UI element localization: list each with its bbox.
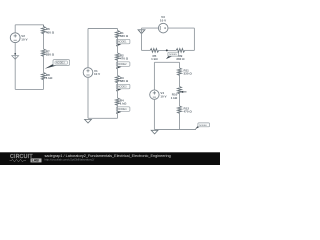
svg-text:NODE2: NODE2 (118, 63, 127, 66)
svg-text:sadegrap1 / Laboratory2_Fundam: sadegrap1 / Laboratory2_Fundamentals_Ele… (45, 154, 171, 158)
callout node flag circuit1 (45, 60, 70, 69)
label V1 10 V (94, 69, 100, 76)
wire left upper circuit2 (87, 29, 89, 68)
wire top rail circuit2 (88, 28, 118, 30)
label V2 10 V (21, 34, 27, 41)
wire bottom branch left circuit3 (142, 49, 151, 51)
svg-text:1 kΩ: 1 kΩ (151, 57, 158, 61)
callout node flag 2a (116, 39, 130, 46)
svg-text:1 kΩ: 1 kΩ (120, 102, 127, 106)
wiper arrow R10 (180, 91, 186, 93)
svg-text:470 Ω: 470 Ω (120, 57, 129, 61)
wire left upper circuit1 (14, 25, 16, 33)
svg-text:LAB: LAB (32, 159, 40, 163)
label R3 680 (120, 76, 129, 83)
wire chain2 seg1 (117, 37, 119, 53)
svg-text:330 Ω: 330 Ω (184, 72, 193, 76)
voltage source V1 (83, 68, 93, 78)
label R6 400 (46, 27, 55, 34)
wire chain4 top stub (179, 62, 181, 68)
ground GND2 (85, 119, 92, 123)
svg-text:http://circuitlab.com/c/2p63k8: http://circuitlab.com/c/2p63k8/laborator… (45, 158, 95, 162)
resistor R2 (116, 53, 120, 60)
svg-text:CIRCUIT: CIRCUIT (10, 154, 33, 160)
label V4 10 V (160, 91, 166, 98)
svg-text:10 V: 10 V (160, 18, 166, 22)
resistor R8 (42, 73, 46, 80)
resistor R5 (150, 49, 159, 53)
wire chain2 seg2 (117, 59, 119, 75)
callout node flag circuit4 (195, 123, 209, 129)
resistor R7 (42, 49, 46, 56)
resistor R4 (116, 98, 120, 105)
svg-text:NODE3: NODE3 (118, 86, 127, 89)
label R12 470 (184, 107, 193, 114)
ground GND4 (151, 130, 158, 134)
svg-text:330 Ω: 330 Ω (120, 34, 129, 38)
svg-text:1 kΩ: 1 kΩ (171, 96, 178, 100)
callout node flag 2c (116, 84, 130, 91)
voltage source V3 (158, 23, 168, 33)
svg-text:470 Ω: 470 Ω (184, 110, 193, 114)
wire chain4 seg3 (179, 112, 181, 129)
svg-text:400 Ω: 400 Ω (46, 30, 55, 34)
label R7 330 (46, 50, 55, 57)
svg-text:NODE1: NODE1 (118, 41, 127, 44)
node dot circuit3 (166, 49, 168, 51)
wire chain2 seg3 (117, 82, 119, 98)
label R11 330 (184, 69, 193, 76)
label R2 470 (120, 54, 129, 61)
wire chain1 seg2 (43, 55, 45, 72)
callout node flag circuit3 (166, 52, 179, 59)
svg-text:NODE6: NODE6 (199, 125, 207, 127)
resistor R1 (116, 31, 120, 38)
svg-text:10 V: 10 V (160, 94, 166, 98)
wire left vertical circuit3 (141, 28, 143, 50)
svg-text:330 Ω: 330 Ω (176, 57, 185, 61)
wire top rail circuit4 (154, 61, 179, 63)
wire bottom rail circuit4 (154, 129, 196, 131)
wire left lower circuit2 (87, 77, 89, 118)
label R8 1k (46, 73, 53, 80)
CircuitLab logo (10, 154, 42, 163)
wire top rail left circuit3 (142, 27, 159, 29)
wire chain2 seg4 (117, 104, 119, 118)
resistor R12 (178, 106, 182, 113)
svg-text:10 V: 10 V (94, 72, 100, 76)
label R1 330 (120, 31, 129, 38)
node dot circuit1 (14, 53, 16, 55)
wire chain1 seg1 (43, 33, 45, 49)
label V3 10 V (160, 15, 166, 22)
wire left upper circuit4 (153, 62, 155, 90)
wire top rail right circuit3 (168, 27, 194, 29)
svg-text:10 V: 10 V (21, 37, 27, 41)
svg-text:NODE3: NODE3 (56, 62, 65, 65)
resistor R10 (178, 87, 182, 94)
callout node flag 2b (116, 62, 130, 69)
voltage source V4 (150, 90, 159, 99)
label R5 1k (151, 54, 158, 61)
wire bottom branch mid circuit3 (159, 49, 177, 51)
wire bottom rail circuit2 (88, 117, 118, 119)
wire left lower circuit4 (153, 99, 155, 129)
wire chain4 seg2 (179, 93, 181, 106)
callout node flag 2d (116, 107, 130, 114)
wire chain4 seg1 (179, 74, 181, 86)
svg-text:330 Ω: 330 Ω (46, 53, 55, 57)
svg-text:680 Ω: 680 Ω (120, 79, 129, 83)
resistor R6 (42, 25, 46, 34)
label R10 1k (171, 93, 178, 100)
ground GND1 (12, 56, 19, 60)
voltage source V2 (10, 33, 20, 43)
resistor R3 (116, 76, 120, 83)
wire bottom branch right circuit3 (185, 49, 195, 51)
wire right vertical circuit3 (193, 28, 195, 50)
footer background (0, 152, 220, 165)
svg-text:NODE4: NODE4 (118, 108, 127, 111)
wire bottom rail circuit1 (15, 88, 43, 90)
label R4 1k (120, 99, 127, 106)
svg-text:NODE5: NODE5 (169, 54, 177, 56)
ground GND3 (138, 30, 145, 34)
wire chain2 top stub (117, 29, 119, 31)
wire top rail circuit1 (15, 24, 43, 26)
wire chain1 seg3 (43, 79, 45, 90)
resistor R11 (178, 68, 182, 75)
svg-text:1 kΩ: 1 kΩ (46, 76, 53, 80)
label R9 330 (176, 54, 185, 61)
wire left lower circuit1 (14, 43, 16, 90)
resistor R9 (176, 49, 185, 53)
